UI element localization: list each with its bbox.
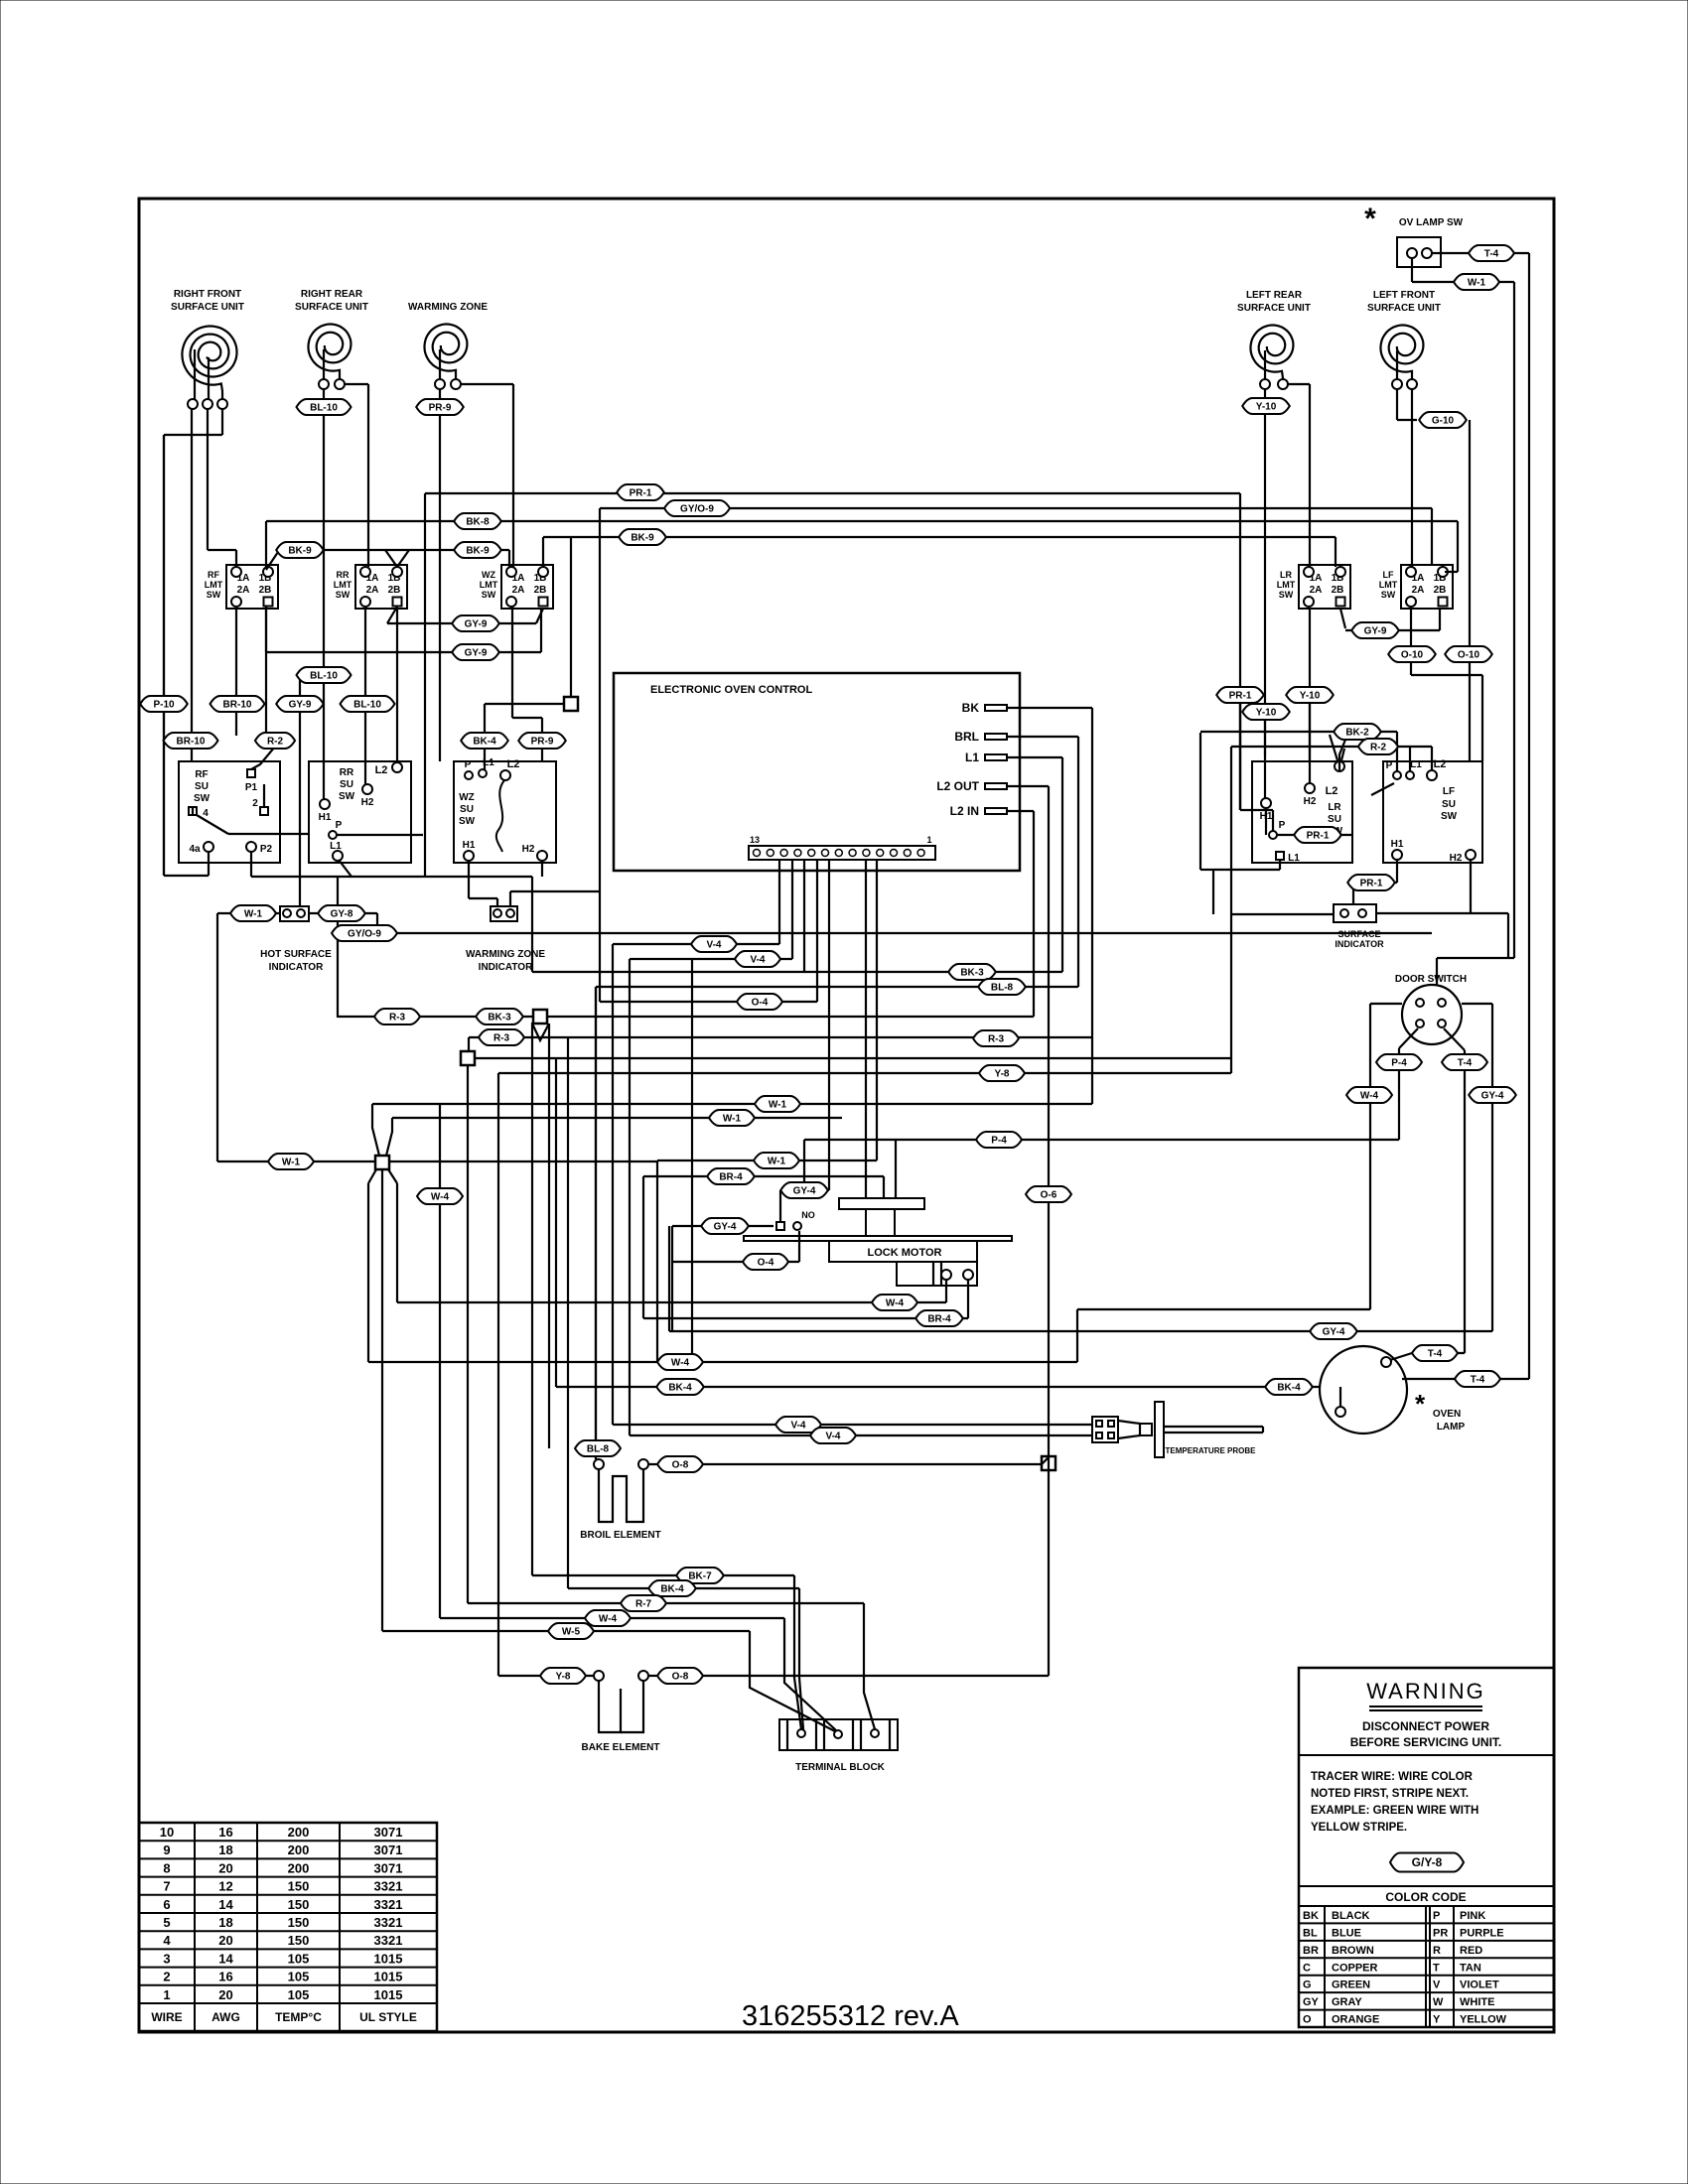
svg-text:BRL: BRL [954,730,979,744]
svg-text:L2 OUT: L2 OUT [936,779,979,793]
svg-text:O-6: O-6 [1041,1189,1057,1200]
svg-text:L2: L2 [1434,758,1447,770]
svg-text:TEMPERATURE PROBE: TEMPERATURE PROBE [1166,1446,1257,1455]
svg-text:BK-4: BK-4 [660,1583,684,1594]
svg-text:4: 4 [163,1933,171,1948]
svg-text:GREEN: GREEN [1332,1979,1370,1991]
svg-text:SW: SW [207,590,221,600]
svg-text:SURFACE UNIT: SURFACE UNIT [1367,303,1441,314]
svg-text:O: O [1303,2014,1312,2026]
svg-text:7: 7 [163,1879,170,1894]
svg-text:BK: BK [1303,1910,1319,1922]
svg-text:YELLOW: YELLOW [1460,2014,1507,2026]
svg-text:EXAMPLE: GREEN WIRE WITH: EXAMPLE: GREEN WIRE WITH [1311,1805,1478,1817]
svg-text:SU: SU [1328,814,1341,825]
svg-text:INDICATOR: INDICATOR [269,962,324,973]
svg-text:1015: 1015 [374,1970,403,1984]
svg-text:150: 150 [288,1915,310,1930]
svg-text:BL-8: BL-8 [587,1443,610,1454]
svg-text:200: 200 [288,1860,310,1875]
svg-text:14: 14 [218,1897,233,1912]
svg-text:L1: L1 [1288,853,1300,864]
svg-text:3321: 3321 [374,1879,403,1894]
svg-text:C: C [1303,1962,1311,1974]
svg-text:H2: H2 [361,797,374,808]
svg-text:COPPER: COPPER [1332,1962,1378,1974]
svg-text:20: 20 [218,1933,232,1948]
svg-text:PR-1: PR-1 [1360,878,1383,888]
svg-text:WARMING ZONE: WARMING ZONE [408,302,488,313]
svg-text:GY-8: GY-8 [331,908,353,919]
svg-text:LR: LR [1328,802,1341,813]
svg-text:DOOR SWITCH: DOOR SWITCH [1395,974,1467,985]
svg-text:Y-10: Y-10 [1300,690,1321,701]
svg-text:H1: H1 [463,840,476,851]
svg-text:BROWN: BROWN [1332,1945,1374,1957]
svg-text:3321: 3321 [374,1897,403,1912]
svg-text:O-8: O-8 [672,1671,689,1682]
svg-text:BK-9: BK-9 [466,545,490,556]
svg-text:H2: H2 [1450,853,1463,864]
svg-text:BK-3: BK-3 [488,1012,511,1023]
svg-text:5: 5 [163,1915,170,1930]
svg-text:2A: 2A [512,585,525,596]
svg-text:9: 9 [163,1843,170,1857]
svg-text:PR: PR [1433,1927,1448,1939]
svg-text:BL-10: BL-10 [310,402,338,413]
svg-text:LMT: LMT [334,580,352,590]
svg-text:RED: RED [1460,1945,1482,1957]
svg-text:W-4: W-4 [886,1297,905,1308]
svg-text:R-2: R-2 [1370,742,1387,752]
svg-text:LMT: LMT [1379,580,1398,590]
svg-text:WARMING ZONE: WARMING ZONE [466,949,545,960]
svg-text:V-4: V-4 [790,1420,805,1431]
svg-text:H1: H1 [319,812,332,823]
svg-text:3321: 3321 [374,1933,403,1948]
svg-text:UL STYLE: UL STYLE [359,2010,417,2024]
svg-text:18: 18 [218,1915,232,1930]
svg-text:BK: BK [962,701,980,715]
svg-text:W-1: W-1 [1468,277,1486,288]
svg-text:RF: RF [195,769,208,780]
svg-text:200: 200 [288,1825,310,1840]
svg-text:LOCK MOTOR: LOCK MOTOR [868,1247,942,1259]
svg-text:PR-9: PR-9 [531,736,554,747]
svg-text:PR-1: PR-1 [630,487,652,498]
svg-text:HOT SURFACE: HOT SURFACE [260,949,332,960]
svg-text:H2: H2 [522,844,535,855]
svg-text:3321: 3321 [374,1915,403,1930]
svg-text:O-10: O-10 [1401,649,1424,660]
svg-text:PR-1: PR-1 [1307,830,1330,841]
svg-text:SW: SW [1381,590,1396,600]
svg-text:TEMP°C: TEMP°C [275,2010,322,2024]
svg-text:*: * [1415,1389,1426,1419]
svg-text:Y: Y [1433,2014,1441,2026]
svg-text:BLUE: BLUE [1332,1927,1361,1939]
svg-text:P2: P2 [260,844,273,855]
svg-text:O-8: O-8 [672,1459,689,1470]
svg-text:2: 2 [163,1970,170,1984]
svg-text:P: P [1386,760,1393,771]
svg-text:20: 20 [218,1987,232,2002]
svg-text:R-3: R-3 [493,1032,510,1043]
svg-text:BR-10: BR-10 [177,736,206,747]
svg-text:W-4: W-4 [431,1191,450,1202]
svg-text:Y-8: Y-8 [994,1068,1009,1079]
svg-text:2A: 2A [366,585,379,596]
svg-text:3071: 3071 [374,1825,403,1840]
svg-text:WIRE: WIRE [151,2010,182,2024]
svg-text:1015: 1015 [374,1951,403,1966]
svg-text:GY-9: GY-9 [465,647,488,658]
svg-text:TERMINAL BLOCK: TERMINAL BLOCK [795,1762,886,1773]
svg-text:2A: 2A [1412,585,1425,596]
svg-text:W: W [1433,1996,1444,2008]
svg-text:GY-4: GY-4 [1323,1326,1345,1337]
svg-text:GY-9: GY-9 [289,699,312,710]
svg-text:LMT: LMT [1277,580,1296,590]
svg-text:RIGHT REAR: RIGHT REAR [301,289,363,300]
svg-text:O-4: O-4 [758,1257,774,1268]
svg-text:10: 10 [160,1825,174,1840]
svg-text:RR: RR [340,767,354,778]
svg-text:G: G [1303,1979,1312,1991]
svg-text:V-4: V-4 [750,954,765,965]
svg-text:LMT: LMT [205,580,223,590]
svg-text:150: 150 [288,1879,310,1894]
svg-text:BK-4: BK-4 [473,736,496,747]
svg-text:NOTED FIRST, STRIPE NEXT.: NOTED FIRST, STRIPE NEXT. [1311,1788,1469,1800]
svg-text:1: 1 [163,1987,170,2002]
svg-text:WZ: WZ [459,792,475,803]
svg-text:L1: L1 [1410,759,1422,770]
svg-text:13: 13 [750,835,760,845]
svg-text:INDICATOR: INDICATOR [1335,939,1384,949]
svg-text:SU: SU [195,781,209,792]
svg-text:GRAY: GRAY [1332,1996,1362,2008]
svg-text:PR-1: PR-1 [1229,690,1252,701]
svg-text:G-10: G-10 [1432,415,1455,426]
svg-text:T-4: T-4 [1428,1348,1443,1359]
svg-text:OVEN: OVEN [1433,1409,1461,1420]
svg-text:Y-10: Y-10 [1256,707,1277,718]
svg-text:ELECTRONIC OVEN CONTROL: ELECTRONIC OVEN CONTROL [650,684,812,696]
svg-text:16: 16 [218,1825,232,1840]
svg-text:V-4: V-4 [825,1431,840,1441]
svg-text:16: 16 [218,1970,232,1984]
svg-text:SW: SW [1441,811,1458,822]
svg-text:L1: L1 [965,751,979,764]
svg-text:WHITE: WHITE [1460,1996,1494,2008]
svg-text:P: P [1433,1910,1440,1922]
svg-text:BK-9: BK-9 [631,532,654,543]
svg-text:GY-4: GY-4 [1481,1090,1504,1101]
svg-text:P-4: P-4 [1391,1057,1407,1068]
svg-text:L2: L2 [375,764,388,776]
svg-text:BR-10: BR-10 [223,699,252,710]
svg-text:T-4: T-4 [1458,1057,1473,1068]
svg-text:2B: 2B [1332,585,1344,596]
svg-text:2B: 2B [1434,585,1447,596]
svg-text:VIOLET: VIOLET [1460,1979,1499,1991]
svg-text:RF: RF [208,570,219,580]
svg-text:3071: 3071 [374,1843,403,1857]
svg-text:BK-3: BK-3 [960,967,984,978]
svg-text:BL-10: BL-10 [353,699,381,710]
svg-text:105: 105 [288,1951,310,1966]
svg-text:SW: SW [1279,590,1294,600]
svg-text:BR-4: BR-4 [719,1171,743,1182]
svg-text:W-1: W-1 [769,1099,787,1110]
svg-text:2: 2 [252,798,258,809]
svg-text:SU: SU [460,804,474,815]
svg-text:W-5: W-5 [562,1626,581,1637]
svg-text:6: 6 [163,1897,170,1912]
svg-text:SW: SW [194,793,211,804]
svg-text:W-4: W-4 [671,1357,690,1368]
svg-text:P: P [336,820,343,831]
svg-text:BL-8: BL-8 [991,982,1014,993]
svg-text:SW: SW [459,816,476,827]
svg-text:Y-8: Y-8 [555,1671,570,1682]
svg-text:LAMP: LAMP [1437,1422,1466,1433]
svg-text:2A: 2A [1310,585,1323,596]
svg-text:SW: SW [482,590,496,600]
svg-text:GY-9: GY-9 [1364,625,1387,636]
svg-text:P: P [1279,820,1286,831]
svg-text:R-7: R-7 [635,1598,652,1609]
svg-text:V: V [1433,1979,1441,1991]
svg-text:2A: 2A [237,585,250,596]
svg-text:H1: H1 [1391,839,1404,850]
svg-text:INDICATOR: INDICATOR [479,962,533,973]
svg-text:SU: SU [340,779,353,790]
svg-text:BK-8: BK-8 [466,516,490,527]
svg-text:T-4: T-4 [1484,248,1499,259]
svg-text:T-4: T-4 [1471,1374,1485,1385]
svg-text:DISCONNECT POWER: DISCONNECT POWER [1362,1719,1489,1733]
svg-text:GY-4: GY-4 [793,1185,816,1196]
svg-text:SURFACE UNIT: SURFACE UNIT [1237,303,1311,314]
svg-text:18: 18 [218,1843,232,1857]
svg-text:WARNING: WARNING [1366,1679,1485,1704]
svg-text:L2 IN: L2 IN [950,804,979,818]
svg-text:L2: L2 [1326,785,1338,797]
svg-text:4: 4 [203,808,209,819]
svg-text:200: 200 [288,1843,310,1857]
svg-text:OV LAMP SW: OV LAMP SW [1399,217,1464,228]
svg-text:GY: GY [1303,1996,1320,2008]
svg-text:105: 105 [288,1987,310,2002]
svg-text:LR: LR [1280,570,1292,580]
svg-text:150: 150 [288,1933,310,1948]
svg-text:GY-9: GY-9 [465,618,488,629]
svg-text:NO: NO [801,1210,815,1220]
svg-text:L2: L2 [507,758,520,770]
svg-text:L1: L1 [330,841,342,852]
svg-text:W-4: W-4 [599,1613,618,1624]
svg-text:316255312 rev.A: 316255312 rev.A [742,2000,959,2032]
svg-text:3: 3 [163,1951,170,1966]
svg-text:LMT: LMT [480,580,498,590]
svg-text:BR-4: BR-4 [927,1313,951,1324]
svg-text:BL-10: BL-10 [310,670,338,681]
svg-text:SW: SW [336,590,351,600]
svg-text:BEFORE SERVICING UNIT.: BEFORE SERVICING UNIT. [1350,1735,1501,1749]
svg-text:GY/O-9: GY/O-9 [348,928,381,939]
svg-text:GY-4: GY-4 [714,1221,737,1232]
svg-text:2B: 2B [259,585,272,596]
svg-text:LEFT FRONT: LEFT FRONT [1373,290,1435,301]
svg-text:105: 105 [288,1970,310,1984]
svg-text:SU: SU [1442,799,1456,810]
svg-text:BK-4: BK-4 [1277,1382,1301,1393]
svg-text:V-4: V-4 [706,939,721,950]
svg-text:GY/O-9: GY/O-9 [680,503,714,514]
svg-text:BK-7: BK-7 [688,1570,712,1581]
svg-text:R: R [1433,1945,1441,1957]
svg-text:150: 150 [288,1897,310,1912]
svg-text:LF: LF [1383,570,1394,580]
svg-text:G/Y-8: G/Y-8 [1412,1855,1443,1869]
svg-text:R-3: R-3 [988,1033,1005,1044]
svg-text:BLACK: BLACK [1332,1910,1370,1922]
svg-text:W-1: W-1 [244,908,263,919]
svg-text:14: 14 [218,1951,233,1966]
svg-text:PR-9: PR-9 [429,402,452,413]
svg-text:R-2: R-2 [267,736,284,747]
svg-text:P-10: P-10 [153,699,175,710]
svg-text:SURFACE UNIT: SURFACE UNIT [295,302,368,313]
svg-text:2B: 2B [534,585,547,596]
svg-text:*: * [1364,203,1376,235]
svg-text:TRACER WIRE: WIRE COLOR: TRACER WIRE: WIRE COLOR [1311,1771,1474,1783]
svg-text:BR: BR [1303,1945,1319,1957]
svg-text:W-1: W-1 [723,1113,742,1124]
svg-text:T: T [1433,1962,1440,1974]
svg-text:3071: 3071 [374,1860,403,1875]
svg-text:SW: SW [339,791,355,802]
svg-text:O-10: O-10 [1458,649,1480,660]
svg-text:WZ: WZ [482,570,495,580]
svg-text:SURFACE UNIT: SURFACE UNIT [171,302,244,313]
svg-text:BAKE ELEMENT: BAKE ELEMENT [582,1742,660,1753]
svg-text:LEFT REAR: LEFT REAR [1246,290,1303,301]
svg-text:TAN: TAN [1460,1962,1481,1974]
svg-text:BK-4: BK-4 [668,1382,692,1393]
svg-text:W-1: W-1 [282,1157,301,1167]
svg-text:O-4: O-4 [752,997,769,1008]
svg-text:1015: 1015 [374,1987,403,2002]
svg-text:LF: LF [1443,786,1455,797]
svg-text:H2: H2 [1304,796,1317,807]
svg-text:RIGHT FRONT: RIGHT FRONT [174,289,241,300]
svg-text:4a: 4a [189,844,201,855]
svg-text:PURPLE: PURPLE [1460,1927,1504,1939]
svg-text:ORANGE: ORANGE [1332,2014,1379,2026]
svg-text:20: 20 [218,1860,232,1875]
svg-text:P: P [465,759,472,770]
svg-text:BK-2: BK-2 [1345,727,1369,738]
svg-text:RR: RR [337,570,350,580]
svg-text:P-4: P-4 [991,1135,1007,1146]
svg-text:R-3: R-3 [389,1012,406,1023]
svg-text:8: 8 [163,1860,170,1875]
svg-text:1: 1 [926,835,931,845]
svg-text:12: 12 [218,1879,232,1894]
svg-text:YELLOW STRIPE.: YELLOW STRIPE. [1311,1822,1407,1834]
svg-text:W-1: W-1 [768,1156,786,1166]
svg-text:BK-9: BK-9 [288,545,312,556]
svg-text:AWG: AWG [211,2010,240,2024]
svg-text:P1: P1 [245,782,258,793]
svg-text:PINK: PINK [1460,1910,1485,1922]
svg-text:2B: 2B [388,585,401,596]
svg-text:BL: BL [1303,1927,1318,1939]
svg-text:Y-10: Y-10 [1256,401,1277,412]
svg-text:L1: L1 [483,757,494,768]
svg-text:W-4: W-4 [1360,1090,1379,1101]
svg-text:BROIL ELEMENT: BROIL ELEMENT [580,1530,660,1541]
svg-text:COLOR CODE: COLOR CODE [1385,1890,1466,1904]
